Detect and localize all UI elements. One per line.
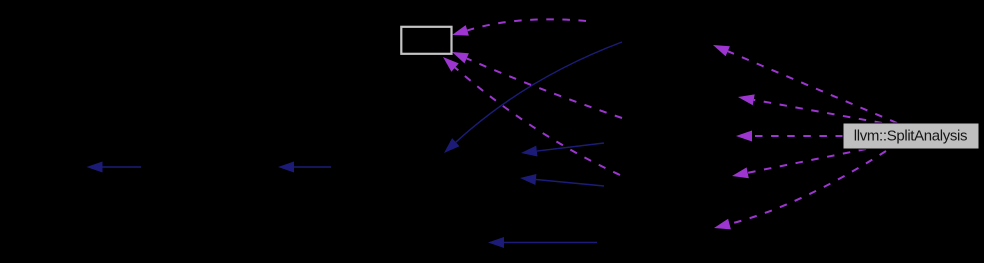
usage edge SplitAnalysis -> node 4 bbox=[732, 149, 866, 178]
usage edge into grey box bottom bbox=[443, 57, 620, 175]
inheritance edge: bottom horizontal bbox=[488, 237, 597, 248]
usage edge SplitAnalysis -> node 5 (bottom) bbox=[714, 151, 886, 229]
empty node with grey border (top centre) bbox=[401, 27, 451, 54]
usage edge into grey box right side (top curve) bbox=[452, 19, 586, 35]
inheritance edge: llvm::FunctionPass -> llvm::Pass bbox=[87, 162, 142, 173]
inheritance edge: derived node -> base (lower) bbox=[520, 174, 604, 186]
usage edge into grey box right side (middle) bbox=[452, 52, 622, 118]
usage edge SplitAnalysis -> node 1 (top) bbox=[713, 45, 897, 123]
svg-text:llvm::SplitAnalysis: llvm::SplitAnalysis bbox=[854, 127, 967, 144]
usage edge SplitAnalysis -> node 2 bbox=[738, 94, 882, 123]
inheritance edge: long curve from top-right node bbox=[444, 42, 622, 153]
inheritance edge: derived node -> base (upper) bbox=[521, 143, 604, 157]
inheritance edge: llvm::MachineFunctionPass -> llvm::FunctionPass bbox=[278, 162, 331, 173]
usage edge SplitAnalysis -> node 3 (horizontal) bbox=[736, 131, 843, 142]
node llvm::SplitAnalysis bbox=[843, 123, 979, 149]
